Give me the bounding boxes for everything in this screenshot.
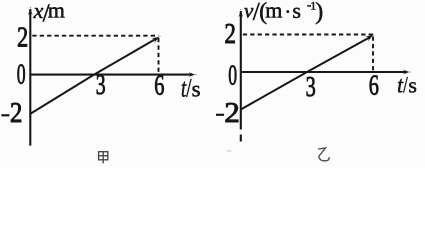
right graph tick label 2 bbox=[224, 18, 236, 50]
left graph dashed line x=6 bbox=[158, 38, 160, 73]
right graph tick label -2 minus bbox=[216, 114, 224, 116]
svg-text:m: m bbox=[48, 0, 65, 23]
left graph tick label 0 bbox=[17, 59, 26, 90]
svg-text:): ) bbox=[315, 0, 323, 25]
left graph tick label 3 bbox=[96, 70, 106, 102]
right graph axis label v/(m*s^-1) bbox=[244, 0, 323, 26]
left graph axis label x/m bbox=[33, 0, 65, 27]
svg-text:3: 3 bbox=[306, 72, 316, 103]
right graph data line with arrow bbox=[241, 34, 375, 109]
svg-text:s: s bbox=[192, 76, 201, 101]
svg-text:s: s bbox=[292, 0, 301, 23]
svg-text:0: 0 bbox=[17, 59, 26, 90]
caption yi bbox=[318, 148, 329, 161]
right graph y-axis bbox=[238, 9, 243, 141]
svg-text:2: 2 bbox=[224, 96, 240, 129]
right graph dashed line y=2 bbox=[243, 34, 373, 36]
right graph x-axis bbox=[241, 70, 411, 75]
left graph tick label -2 digit bbox=[10, 96, 23, 128]
svg-text:/: / bbox=[403, 73, 408, 98]
left graph x-axis bbox=[30, 72, 196, 77]
left graph tick label -2 minus bbox=[1, 114, 9, 116]
svg-text:6: 6 bbox=[369, 70, 379, 101]
svg-text:m: m bbox=[265, 0, 282, 22]
right graph tick label -2 digit bbox=[224, 96, 240, 129]
svg-text:2: 2 bbox=[17, 21, 28, 53]
right graph tick label 3 bbox=[306, 72, 316, 103]
svg-text:2: 2 bbox=[224, 18, 236, 50]
svg-text:s: s bbox=[408, 72, 417, 97]
svg-text:3: 3 bbox=[96, 70, 106, 102]
left graph y-axis bbox=[28, 7, 33, 145]
left graph tick label 2 bbox=[17, 21, 28, 53]
stray scan speck bbox=[227, 150, 232, 152]
left graph axis label t/s bbox=[181, 74, 201, 103]
left graph dashed line y=2 bbox=[32, 35, 158, 37]
left graph data line with arrow bbox=[30, 36, 161, 114]
right graph tick label 6 bbox=[369, 70, 379, 101]
svg-text:0: 0 bbox=[228, 60, 237, 91]
caption jia bbox=[99, 152, 108, 164]
left graph tick label 6 bbox=[154, 70, 164, 101]
right graph dashed line x=6 bbox=[372, 37, 374, 71]
right graph axis label t/s bbox=[397, 72, 417, 99]
right graph tick label 0 bbox=[228, 60, 237, 91]
svg-text:2: 2 bbox=[10, 96, 23, 128]
svg-text:6: 6 bbox=[154, 70, 164, 101]
